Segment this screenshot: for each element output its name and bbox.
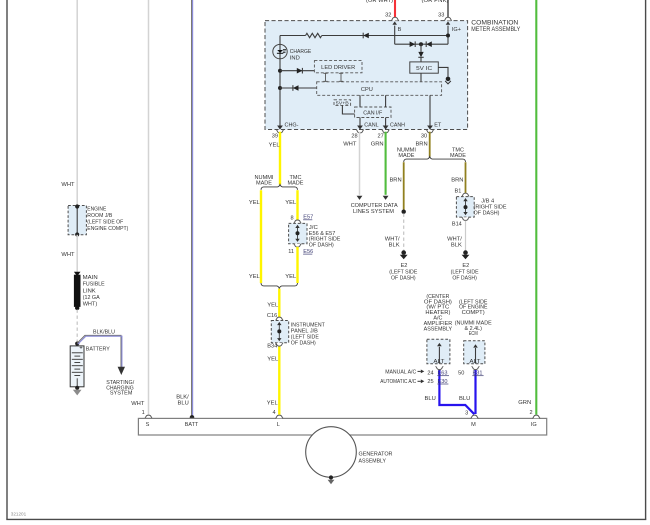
svg-text:BLU: BLU (425, 396, 436, 402)
svg-text:MAIN: MAIN (83, 275, 98, 281)
svg-text:AUTOMATIC A/C: AUTOMATIC A/C (380, 379, 416, 385)
svg-text:B1: B1 (455, 188, 462, 194)
svg-text:WHT): WHT) (83, 302, 98, 308)
svg-text:BLK/: BLK/ (176, 394, 189, 400)
svg-text:SYSTEM: SYSTEM (110, 391, 133, 397)
svg-text:ET: ET (434, 122, 441, 128)
svg-text:(OR PNK): (OR PNK) (422, 0, 449, 4)
svg-text:C16: C16 (267, 313, 277, 319)
svg-text:BATT: BATT (185, 422, 199, 428)
svg-text:33: 33 (438, 13, 444, 19)
svg-text:LINES SYSTEM: LINES SYSTEM (353, 209, 394, 215)
svg-text:GRN: GRN (518, 400, 531, 406)
svg-text:E2: E2 (401, 263, 408, 269)
svg-text:YEL: YEL (269, 142, 281, 148)
svg-text:(LEFT SIDE OF: (LEFT SIDE OF (87, 220, 123, 226)
svg-text:MADE: MADE (450, 153, 466, 159)
svg-text:GENERATOR: GENERATOR (359, 451, 393, 457)
svg-text:FUSIBLE: FUSIBLE (83, 282, 105, 288)
svg-text:ECM: ECM (469, 331, 478, 337)
svg-text:YEL: YEL (267, 356, 279, 362)
svg-text:OF DASH): OF DASH) (391, 276, 416, 282)
svg-text:50: 50 (458, 371, 464, 377)
svg-text:CHG-: CHG- (285, 122, 299, 128)
svg-text:LINK: LINK (83, 288, 96, 294)
svg-text:MANUAL A/C: MANUAL A/C (385, 369, 416, 375)
svg-text:WHT: WHT (131, 401, 145, 407)
svg-text:28: 28 (351, 134, 357, 140)
svg-text:MADE: MADE (256, 181, 272, 187)
svg-text:WHT: WHT (61, 252, 75, 258)
svg-text:ROOM J/B: ROOM J/B (87, 213, 112, 219)
svg-text:BATTERY: BATTERY (86, 346, 110, 352)
svg-text:CHARGE: CHARGE (290, 49, 312, 55)
svg-text:CANL: CANL (364, 122, 379, 128)
svg-text:CPU: CPU (361, 87, 373, 93)
svg-text:BRN: BRN (415, 142, 427, 148)
svg-text:39: 39 (272, 134, 278, 140)
svg-text:YEL: YEL (285, 200, 297, 206)
svg-text:ASSEMBLY: ASSEMBLY (359, 458, 387, 464)
svg-text:ALT: ALT (433, 359, 445, 365)
svg-text:E2: E2 (462, 263, 469, 269)
svg-text:LED DRIVER: LED DRIVER (321, 65, 355, 71)
svg-text:WHT/: WHT/ (447, 236, 462, 242)
svg-text:OF DASH): OF DASH) (452, 276, 477, 282)
svg-text:WHT: WHT (343, 142, 357, 148)
svg-text:S: S (146, 422, 150, 428)
svg-text:BLU: BLU (178, 401, 189, 407)
svg-text:4: 4 (272, 410, 275, 416)
svg-text:30: 30 (421, 134, 427, 140)
svg-text:2: 2 (529, 410, 532, 416)
svg-text:YEL: YEL (249, 274, 261, 280)
svg-text:COMPT): COMPT) (462, 310, 485, 316)
svg-text:CANH: CANH (390, 122, 405, 128)
svg-text:BRN: BRN (451, 177, 463, 183)
svg-text:ENGINE COMPT): ENGINE COMPT) (87, 226, 128, 232)
svg-text:B: B (398, 27, 402, 33)
svg-text:MADE: MADE (398, 153, 414, 159)
svg-text:32: 32 (385, 13, 391, 19)
svg-text:MADE: MADE (288, 181, 304, 187)
svg-text:L: L (277, 422, 280, 428)
svg-text:5V IC: 5V IC (416, 66, 432, 72)
svg-text:YEL: YEL (249, 200, 261, 206)
svg-text:24: 24 (427, 371, 433, 377)
svg-text:(12 GA: (12 GA (83, 295, 100, 301)
svg-text:METER ASSEMBLY: METER ASSEMBLY (471, 27, 520, 33)
svg-text:BLK: BLK (451, 242, 462, 248)
svg-text:COMBINATION: COMBINATION (471, 21, 518, 27)
svg-text:27: 27 (377, 134, 383, 140)
svg-text:OF DASH): OF DASH) (291, 340, 316, 346)
svg-text:3: 3 (465, 411, 468, 417)
svg-text:ENGINE: ENGINE (87, 207, 106, 213)
svg-text:WHT/: WHT/ (385, 236, 400, 242)
svg-text:BLK/BLU: BLK/BLU (93, 329, 115, 335)
svg-text:IG: IG (531, 422, 537, 428)
svg-text:OF DASH): OF DASH) (474, 210, 500, 216)
svg-text:321201: 321201 (11, 512, 27, 517)
svg-text:YEL: YEL (267, 303, 279, 309)
svg-text:11: 11 (288, 249, 294, 255)
svg-text:YEL: YEL (267, 401, 279, 407)
svg-text:(OR WHT): (OR WHT) (366, 0, 393, 4)
svg-text:BLU: BLU (459, 396, 470, 402)
svg-text:B34: B34 (267, 344, 277, 350)
svg-text:CAN I/F: CAN I/F (363, 111, 383, 117)
svg-text:8: 8 (290, 215, 293, 221)
svg-text:BRN: BRN (389, 177, 401, 183)
svg-text:ALT: ALT (469, 359, 481, 365)
svg-text:M: M (471, 422, 476, 428)
svg-text:OF DASH): OF DASH) (309, 242, 334, 248)
svg-text:25: 25 (427, 379, 433, 385)
svg-text:BLK: BLK (389, 242, 400, 248)
svg-text:1: 1 (142, 410, 145, 416)
svg-text:+: + (79, 346, 82, 352)
svg-text:ASSEMBLY: ASSEMBLY (424, 326, 453, 332)
svg-text:IND: IND (290, 56, 300, 62)
svg-text:GRN: GRN (371, 142, 384, 148)
svg-text:IG+: IG+ (452, 27, 461, 33)
svg-text:WHT: WHT (61, 182, 75, 188)
svg-text:YEL: YEL (285, 274, 297, 280)
svg-text:B14: B14 (452, 221, 462, 227)
